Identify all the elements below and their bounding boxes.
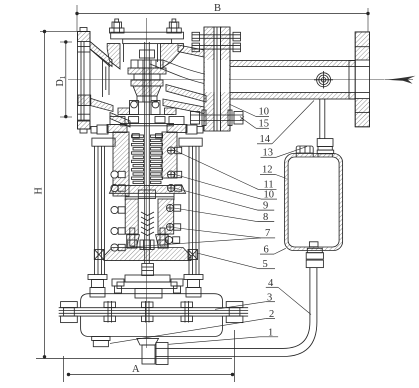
actuator top plates <box>117 275 177 298</box>
dimension A <box>64 330 235 382</box>
packing stud right <box>158 228 167 248</box>
svg-text:15: 15 <box>259 118 270 129</box>
bonnet top bolt left <box>110 19 125 33</box>
pot filler boss <box>296 146 313 160</box>
packing stud left <box>128 228 137 248</box>
left inlet flange <box>78 28 91 134</box>
actuator upper shell <box>81 294 223 308</box>
stem bushing <box>140 50 155 58</box>
flange end bolt left <box>61 302 78 323</box>
svg-text:5: 5 <box>263 259 268 270</box>
packing box left <box>125 199 138 234</box>
spring housing right wall <box>162 132 177 178</box>
dimension D1 <box>55 40 72 118</box>
diaphragm bolt 2 <box>142 301 154 323</box>
part labels right column <box>259 107 275 339</box>
right side tapped bolt 3 <box>167 184 181 191</box>
dimension B <box>75 3 369 32</box>
inlet hub lower cone <box>78 95 113 111</box>
spring housing left wall <box>113 132 129 196</box>
stem coupling <box>142 264 154 276</box>
left side tapped bolt 4 <box>111 227 125 234</box>
left column <box>95 146 105 275</box>
bonnet cap plate <box>111 32 184 43</box>
left side tapped bolt 3 <box>111 206 125 213</box>
column foot right <box>184 275 203 298</box>
outlet flange top bolts <box>192 32 241 51</box>
condensate pot shell <box>285 154 343 251</box>
svg-text:D1: D1 <box>55 75 67 86</box>
spring stack right <box>151 135 163 184</box>
actuator lower shell <box>81 316 223 336</box>
leader lines <box>110 101 314 345</box>
svg-text:10: 10 <box>264 189 275 200</box>
diaphragm bolt 3 <box>181 301 193 323</box>
trim cage <box>128 60 166 102</box>
valve stem <box>143 42 151 263</box>
bonnet top bolt right <box>167 19 182 33</box>
stem guide block <box>140 240 154 250</box>
svg-text:12: 12 <box>262 165 273 176</box>
body lower-right wall <box>163 85 206 114</box>
svg-text:A: A <box>132 364 140 375</box>
actuator bottom boss <box>137 338 159 345</box>
left side tapped bolt 5 <box>111 244 125 251</box>
svg-text:14: 14 <box>260 134 271 145</box>
flange end bolt right <box>226 302 243 323</box>
pressure tap circle <box>314 71 333 89</box>
stem nut <box>138 190 155 199</box>
bonnet neck left (hatched) <box>107 44 123 69</box>
svg-text:13: 13 <box>263 148 274 159</box>
svg-text:9: 9 <box>263 200 268 211</box>
svg-text:H: H <box>34 187 45 194</box>
pot bottom fitting <box>306 248 323 267</box>
outlet flange bottom bolt <box>191 110 244 126</box>
right side tapped bolt 1 <box>167 147 181 154</box>
gland follower right <box>156 235 169 248</box>
body inlet wall <box>103 60 110 97</box>
svg-text:B: B <box>214 3 221 14</box>
packing rings <box>141 212 154 236</box>
packing box top plate <box>125 193 174 200</box>
gland follower left <box>127 235 140 248</box>
diaphragm bolt 1 <box>104 301 116 323</box>
body lower-left wall <box>110 113 130 128</box>
packing box right <box>158 199 174 234</box>
spring seat plate <box>109 185 185 193</box>
outlet upper cone wall <box>150 45 214 84</box>
right guide box <box>188 250 198 260</box>
body bottom flange / seat studs <box>118 101 176 115</box>
yoke plate <box>104 248 191 261</box>
pot bottom boss <box>309 242 318 247</box>
right side tapped bolt 4 <box>166 204 180 211</box>
right side tapped bolt 6 <box>165 236 179 243</box>
spring stack left <box>132 135 144 184</box>
diaphragm flange lines <box>59 308 248 316</box>
impulse pipe from pipe to pot <box>320 99 325 139</box>
inlet hub upper cone <box>90 42 112 67</box>
left side tapped bolt 2 <box>111 184 125 191</box>
right column <box>189 146 199 275</box>
svg-text:8: 8 <box>263 212 268 223</box>
drain plug <box>92 337 110 347</box>
actuator inlet union nut <box>142 343 168 365</box>
centerline vertical (valve stem axis) <box>146 18 148 348</box>
dimension H <box>34 30 233 359</box>
left guide box <box>94 250 104 260</box>
left side tapped bolt 1 <box>111 171 125 178</box>
label underlines <box>256 117 278 337</box>
bonnet neck right (hatched) <box>158 44 184 69</box>
bonnet flange joint plates <box>91 117 203 135</box>
svg-text:7: 7 <box>265 228 270 239</box>
down pipe from pot <box>168 268 317 357</box>
flow arrow <box>385 76 416 84</box>
impulse pipe nut on pot <box>317 139 334 158</box>
column foot left <box>88 275 107 298</box>
seat stud nuts <box>120 117 174 139</box>
plate bolts <box>112 279 183 293</box>
centerline horizontal (pipe axis) <box>68 79 384 81</box>
svg-text:6: 6 <box>264 244 269 255</box>
column mount plate right <box>179 138 202 146</box>
svg-text:10: 10 <box>259 107 270 118</box>
column mount plate left <box>92 138 115 146</box>
outlet pipe walls (hatched) <box>230 61 355 100</box>
outlet flange pair <box>204 27 230 131</box>
right side tapped bolt 5 <box>166 223 180 230</box>
right side tapped bolt 2 <box>167 171 181 178</box>
right pipe flange <box>349 32 370 127</box>
